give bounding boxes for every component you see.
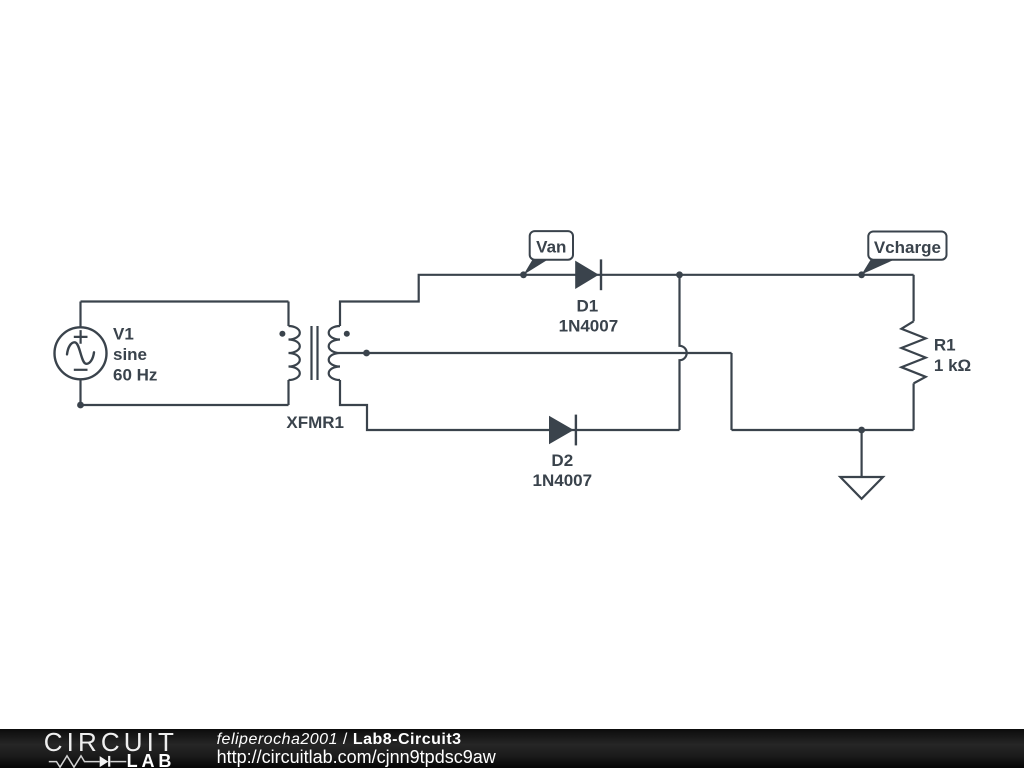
- voltage source V1 circle: [55, 327, 107, 379]
- transformer XFMR1 primary coil: [289, 326, 300, 380]
- diode D2 triangle: [549, 416, 574, 444]
- svg-text:1N4007: 1N4007: [559, 317, 619, 336]
- svg-text:D2: D2: [551, 451, 573, 470]
- svg-text:60 Hz: 60 Hz: [113, 366, 157, 385]
- flag Van bubble: [530, 231, 573, 260]
- transformer XFMR1 secondary coil: [329, 326, 340, 380]
- wire bottom right rail: [732, 429, 914, 431]
- footer url line: [217, 747, 496, 768]
- svg-text:V1: V1: [113, 325, 134, 344]
- svg-text:1N4007: 1N4007: [533, 471, 593, 490]
- wire bottom rail primary: [81, 404, 289, 406]
- node dot center tap: [363, 350, 370, 357]
- CircuitLab logo schematic row: [40, 752, 135, 768]
- diode D2 cathode bar: [575, 415, 577, 446]
- wire secondary bottom to D2 rail: [340, 380, 680, 430]
- wire primary top lead: [287, 302, 289, 327]
- resistor R1: [901, 321, 925, 383]
- diode D1 cathode bar: [600, 259, 602, 290]
- footer title line: [217, 731, 462, 749]
- transformer XFMR1 core: [312, 326, 318, 380]
- svg-text:XFMR1: XFMR1: [286, 413, 344, 432]
- wire ground stem: [860, 430, 862, 477]
- wire center tap horizontal: [340, 352, 732, 354]
- CircuitLab logo LAB text: [127, 751, 176, 772]
- wire secondary top to rail: [340, 275, 914, 326]
- wire V1 bottom lead: [79, 379, 81, 405]
- svg-text:D1: D1: [577, 296, 599, 315]
- CircuitLab logo wordmark: [44, 727, 178, 758]
- V1 minus sign: [74, 369, 88, 371]
- svg-text:sine: sine: [113, 345, 147, 364]
- node dot ground junction: [858, 427, 865, 434]
- node dot V1 bottom: [77, 402, 84, 409]
- flag Vcharge tail: [862, 258, 898, 274]
- transformer primary phase dot: [279, 331, 285, 337]
- wire resistor bottom lead: [912, 383, 914, 430]
- diode D1 triangle: [575, 261, 599, 289]
- svg-text:R1: R1: [934, 335, 956, 354]
- wire center tap vertical drop: [730, 353, 732, 430]
- V1 plus sign: [74, 330, 88, 344]
- flag Vcharge bubble: [868, 232, 946, 260]
- transformer secondary phase dot: [344, 331, 350, 337]
- node dot Van: [520, 271, 527, 278]
- svg-text:Van: Van: [536, 238, 566, 257]
- wire top rail primary: [81, 300, 289, 302]
- footer bar: [0, 729, 1024, 768]
- node dot diode junction: [676, 271, 683, 278]
- wire resistor top lead: [912, 275, 914, 322]
- svg-text:Vcharge: Vcharge: [874, 238, 941, 257]
- svg-text:1 kΩ: 1 kΩ: [934, 356, 971, 375]
- ground symbol: [840, 477, 883, 499]
- wire primary bottom lead: [287, 380, 289, 405]
- node dot Vcharge: [858, 271, 865, 278]
- flag Van tail: [524, 258, 551, 275]
- wire V1 top lead: [79, 302, 81, 328]
- V1 sine wave: [67, 342, 94, 364]
- wire diode output vertical with hop: [680, 275, 687, 430]
